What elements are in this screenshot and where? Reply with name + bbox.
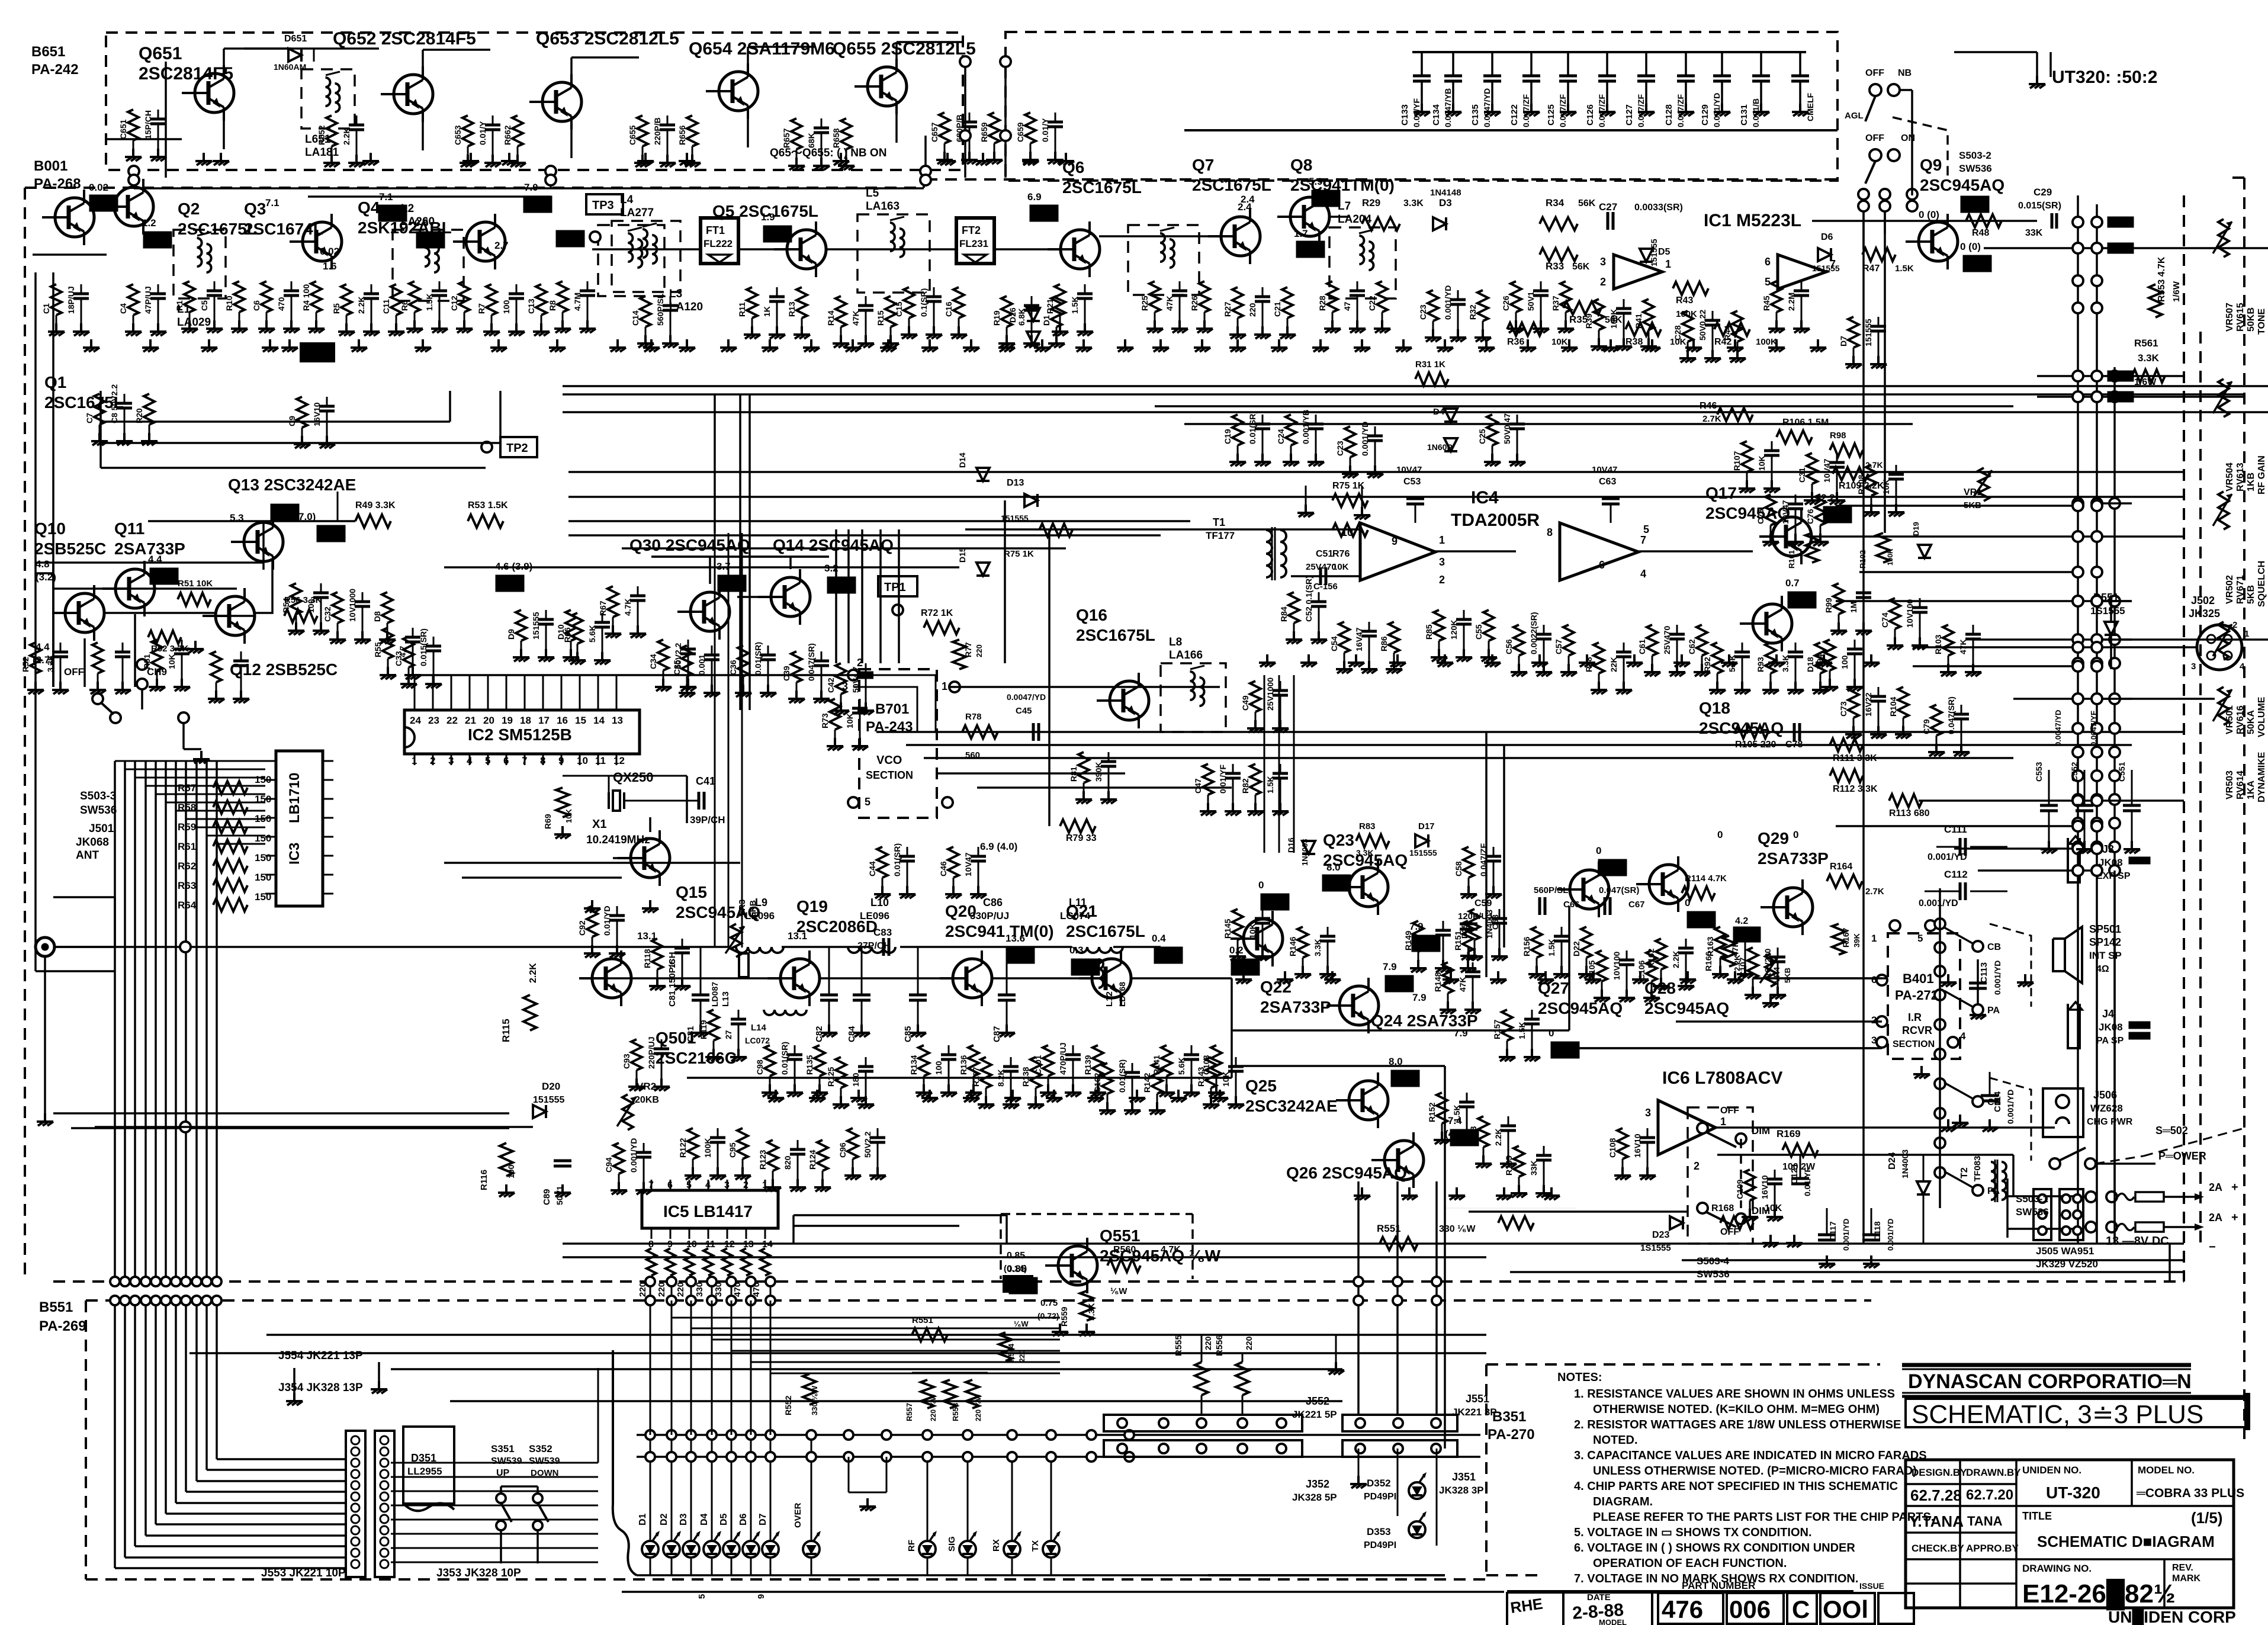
- svg-text:R657: R657: [782, 128, 791, 148]
- svg-text:PD49PI: PD49PI: [1364, 1540, 1396, 1550]
- svg-text:R555: R555: [1174, 1335, 1184, 1356]
- svg-text:D352: D352: [1367, 1478, 1391, 1489]
- svg-text:C74: C74: [1880, 612, 1890, 628]
- svg-text:C92: C92: [577, 920, 587, 936]
- svg-text:5. VOLTAGE IN ▭ SHOWS TX CONDI: 5. VOLTAGE IN ▭ SHOWS TX CONDITION.: [1574, 1526, 1812, 1539]
- svg-text:C25: C25: [1477, 429, 1487, 444]
- svg-text:1KB: 1KB: [2246, 473, 2256, 492]
- svg-text:1: 1: [412, 755, 417, 766]
- svg-text:7.1: 7.1: [379, 191, 393, 203]
- svg-text:13.1: 13.1: [788, 930, 807, 942]
- svg-text:J3: J3: [2102, 843, 2114, 855]
- svg-text:560P/SL: 560P/SL: [1534, 885, 1568, 895]
- svg-text:SCHEMATIC D■IAGRAM: SCHEMATIC D■IAGRAM: [2037, 1533, 2215, 1550]
- svg-text:R14: R14: [826, 310, 836, 326]
- svg-text:16V10: 16V10: [1633, 1133, 1642, 1158]
- svg-text:D13: D13: [1007, 478, 1024, 488]
- svg-text:NOTES:: NOTES:: [1557, 1371, 1602, 1384]
- svg-text:13.6: 13.6: [1005, 933, 1025, 944]
- svg-text:17: 17: [538, 715, 550, 726]
- svg-text:50V1: 50V1: [1526, 291, 1535, 311]
- svg-text:330P/UJ: 330P/UJ: [970, 910, 1009, 921]
- svg-text:2SB525C: 2SB525C: [34, 539, 106, 558]
- svg-text:0.015(SR): 0.015(SR): [2018, 201, 2061, 211]
- svg-text:100: 100: [506, 1164, 516, 1178]
- svg-text:5.6K: 5.6K: [587, 625, 597, 643]
- svg-text:50KB: 50KB: [2246, 307, 2256, 332]
- svg-text:C-156: C-156: [1313, 582, 1338, 592]
- svg-text:220: 220: [1203, 1336, 1213, 1350]
- svg-text:LB1710: LB1710: [287, 773, 303, 823]
- svg-text:0.01/Y: 0.01/Y: [478, 121, 487, 145]
- svg-text:7: 7: [1640, 534, 1646, 546]
- svg-text:INT SP: INT SP: [2089, 950, 2122, 961]
- svg-text:0.001/YD: 0.001/YD: [629, 1138, 638, 1173]
- svg-text:−: −: [2209, 1241, 2216, 1254]
- svg-text:D5: D5: [1658, 247, 1671, 257]
- svg-text:TDA2005R: TDA2005R: [1451, 510, 1540, 530]
- svg-text:Q8: Q8: [1290, 156, 1312, 174]
- svg-text:1N4003: 1N4003: [1900, 1149, 1910, 1178]
- svg-text:R122: R122: [678, 1138, 688, 1158]
- svg-text:15: 15: [667, 959, 677, 968]
- svg-text:Y.TANA: Y.TANA: [1909, 1512, 1964, 1530]
- svg-text:OVER: OVER: [793, 1502, 803, 1528]
- svg-text:150: 150: [255, 872, 271, 883]
- svg-text:2: 2: [430, 755, 435, 766]
- svg-text:IC5 LB1417: IC5 LB1417: [663, 1202, 753, 1221]
- svg-text:VR1: VR1: [1964, 487, 1982, 497]
- svg-text:R116: R116: [479, 1170, 489, 1190]
- svg-text:PART NUMBER: PART NUMBER: [1682, 1580, 1755, 1591]
- svg-text:68K: 68K: [807, 133, 816, 148]
- svg-text:0.4: 0.4: [1152, 933, 1166, 944]
- svg-text:SP142: SP142: [2089, 936, 2121, 948]
- svg-text:0.001: 0.001: [697, 654, 706, 675]
- svg-text:C653: C653: [453, 125, 462, 145]
- svg-text:0 (0): 0 (0): [1960, 241, 1981, 252]
- svg-text:C655: C655: [628, 125, 637, 145]
- svg-text:CHG PWR: CHG PWR: [2087, 1117, 2133, 1127]
- svg-text:R51: R51: [142, 654, 152, 669]
- svg-text:¹⁄₆W: ¹⁄₆W: [1110, 1286, 1127, 1296]
- svg-text:J505 WA951: J505 WA951: [2036, 1245, 2094, 1257]
- svg-text:TX: TX: [1030, 1540, 1040, 1552]
- svg-text:1N4003: 1N4003: [1300, 839, 1309, 866]
- svg-text:R105 220: R105 220: [1735, 740, 1776, 750]
- svg-text:10V47: 10V47: [963, 852, 973, 876]
- svg-text:Q19: Q19: [796, 897, 828, 916]
- svg-text:7.9: 7.9: [1454, 1027, 1468, 1039]
- svg-text:C126: C126: [1585, 104, 1595, 126]
- svg-text:R35: R35: [1569, 314, 1588, 325]
- svg-text:2SC1675L: 2SC1675L: [1062, 178, 1142, 197]
- svg-text:4.8: 4.8: [36, 558, 50, 570]
- svg-text:C11: C11: [381, 299, 391, 314]
- svg-text:Q7: Q7: [1192, 156, 1214, 174]
- svg-text:R27: R27: [1223, 301, 1232, 317]
- svg-text:0.01(SR): 0.01(SR): [892, 843, 902, 876]
- svg-text:R32: R32: [1468, 304, 1477, 320]
- svg-text:JK221 5P: JK221 5P: [1292, 1409, 1337, 1420]
- svg-text:Q4: Q4: [358, 198, 380, 217]
- svg-text:220: 220: [1018, 1350, 1026, 1362]
- svg-text:0.001/YD: 0.001/YD: [1443, 285, 1453, 320]
- svg-text:R142: R142: [1142, 1072, 1152, 1093]
- svg-text:RF GAIN: RF GAIN: [2257, 455, 2267, 494]
- svg-text:R123: R123: [758, 1149, 767, 1170]
- svg-text:R557: R557: [905, 1403, 914, 1421]
- svg-text:C102: C102: [1093, 1072, 1102, 1093]
- svg-text:LA029: LA029: [177, 316, 211, 329]
- svg-text:L12: L12: [1104, 991, 1114, 1007]
- svg-text:C24: C24: [1276, 429, 1286, 444]
- svg-text:0.015(SR): 0.015(SR): [419, 628, 428, 666]
- svg-text:OFF: OFF: [1865, 68, 1884, 78]
- svg-text:R136: R136: [959, 1055, 968, 1075]
- svg-text:47K: 47K: [851, 310, 860, 326]
- svg-text:C5: C5: [200, 300, 209, 311]
- svg-text:C94: C94: [604, 1157, 613, 1173]
- svg-text:R15: R15: [876, 310, 885, 326]
- svg-text:10V100: 10V100: [1612, 952, 1621, 980]
- svg-text:R52: R52: [21, 657, 30, 672]
- svg-text:OOl: OOl: [1823, 1595, 1868, 1623]
- svg-text:R107: R107: [1732, 451, 1742, 471]
- svg-text:R4 100: R4 100: [301, 284, 311, 311]
- svg-text:C127: C127: [1624, 104, 1634, 126]
- svg-text:Q25: Q25: [1245, 1077, 1277, 1095]
- svg-text:RV613: RV613: [2235, 463, 2245, 492]
- svg-text:151555: 151555: [1864, 319, 1873, 346]
- svg-text:5: 5: [485, 755, 490, 766]
- svg-text:21: 21: [465, 715, 476, 726]
- svg-text:0.001/B: 0.001/B: [1751, 98, 1761, 127]
- svg-text:16V22: 16V22: [1864, 692, 1873, 717]
- svg-text:2: 2: [743, 1180, 748, 1190]
- svg-text:SQUELCH: SQUELCH: [2257, 561, 2267, 607]
- svg-text:R114 4.7K: R114 4.7K: [1685, 873, 1727, 884]
- svg-text:2SC945AQ: 2SC945AQ: [1644, 999, 1729, 1017]
- svg-text:220: 220: [676, 1282, 686, 1297]
- svg-text:WZ628: WZ628: [2090, 1103, 2123, 1114]
- svg-text:T1: T1: [1213, 516, 1225, 528]
- svg-text:C135: C135: [1470, 104, 1480, 126]
- svg-text:R109 2.2K: R109 2.2K: [1839, 481, 1884, 491]
- svg-text:0: 0: [1685, 897, 1690, 908]
- svg-text:2.2K: 2.2K: [1733, 955, 1742, 971]
- svg-text:27: 27: [724, 1030, 733, 1039]
- svg-text:SECTION: SECTION: [1893, 1039, 1935, 1049]
- svg-text:0.047/ZF: 0.047/ZF: [1521, 94, 1531, 127]
- svg-text:0.047/ZF: 0.047/ZF: [1479, 843, 1488, 876]
- svg-text:LD087: LD087: [710, 982, 719, 1007]
- svg-text:R554: R554: [1007, 1343, 1016, 1362]
- svg-text:6: 6: [1765, 256, 1771, 268]
- svg-text:Q14 2SC945AQ: Q14 2SC945AQ: [773, 536, 894, 554]
- svg-text:C122: C122: [1509, 104, 1520, 126]
- svg-text:D20: D20: [542, 1081, 560, 1092]
- svg-text:1.9: 1.9: [761, 211, 775, 223]
- svg-text:0.01(SR): 0.01(SR): [1117, 1059, 1127, 1093]
- svg-text:8.0: 8.0: [1326, 862, 1341, 873]
- svg-text:5: 5: [1765, 276, 1771, 288]
- svg-text:100: 100: [502, 300, 511, 314]
- svg-text:3: 3: [448, 755, 454, 766]
- svg-text:7.9: 7.9: [1409, 921, 1424, 932]
- svg-text:LD168: LD168: [1117, 982, 1127, 1007]
- svg-text:390K: 390K: [1094, 762, 1103, 782]
- svg-text:VCO: VCO: [876, 754, 902, 767]
- svg-text:SW536: SW536: [1959, 163, 1992, 174]
- svg-text:R556: R556: [1215, 1335, 1225, 1356]
- svg-text:R73: R73: [820, 713, 830, 728]
- svg-text:C59: C59: [1474, 898, 1492, 908]
- svg-text:220: 220: [975, 644, 984, 657]
- svg-text:R5: R5: [332, 303, 341, 314]
- svg-text:R64: R64: [178, 900, 197, 911]
- svg-text:2: 2: [1439, 574, 1445, 586]
- svg-text:C131: C131: [1739, 104, 1749, 126]
- svg-text:16V10: 16V10: [312, 402, 322, 426]
- svg-text:33K: 33K: [1529, 1160, 1538, 1176]
- svg-text:C117: C117: [1828, 1221, 1837, 1241]
- svg-text:10K: 10K: [845, 713, 854, 728]
- svg-text:151555: 151555: [531, 612, 541, 640]
- svg-text:R167: R167: [1841, 927, 1851, 948]
- svg-text:50KA: 50KA: [2246, 710, 2256, 734]
- svg-text:J501: J501: [89, 823, 114, 835]
- svg-text:0.0047/YF: 0.0047/YF: [2089, 711, 2098, 746]
- svg-text:0.0047/YD: 0.0047/YD: [2054, 710, 2063, 746]
- svg-text:C1: C1: [41, 303, 51, 314]
- svg-text:R119: R119: [699, 1020, 708, 1039]
- svg-text:L11: L11: [1069, 897, 1087, 908]
- svg-text:100K: 100K: [1676, 309, 1697, 319]
- svg-text:0.01/YF: 0.01/YF: [1218, 765, 1228, 794]
- svg-text:RV616: RV616: [2235, 705, 2245, 734]
- svg-text:AGL: AGL: [1845, 111, 1864, 121]
- svg-text:10K: 10K: [1248, 923, 1257, 939]
- svg-text:3.3K: 3.3K: [1313, 939, 1322, 956]
- svg-text:2SA733P: 2SA733P: [1260, 998, 1331, 1016]
- svg-text:2SC2814F5: 2SC2814F5: [139, 64, 233, 84]
- svg-text:LA166: LA166: [1169, 649, 1203, 661]
- svg-text:C659: C659: [1016, 122, 1025, 142]
- svg-text:C86: C86: [983, 897, 1003, 908]
- svg-text:20KB: 20KB: [635, 1095, 659, 1105]
- svg-text:R125: R125: [826, 1067, 836, 1087]
- svg-text:3: 3: [1439, 556, 1445, 568]
- svg-text:10K: 10K: [1765, 1203, 1782, 1213]
- svg-text:C53: C53: [1403, 477, 1421, 487]
- svg-text:VR504: VR504: [2225, 463, 2235, 492]
- svg-text:Q18: Q18: [1699, 699, 1730, 717]
- svg-text:0.75: 0.75: [1040, 1298, 1058, 1308]
- svg-text:9: 9: [1392, 535, 1398, 547]
- svg-text:6.9: 6.9: [1027, 191, 1042, 203]
- svg-text:820: 820: [783, 1155, 792, 1170]
- svg-text:62.7.28: 62.7.28: [1910, 1486, 1962, 1504]
- svg-text:C27: C27: [1599, 201, 1617, 213]
- svg-text:7: 7: [648, 1180, 654, 1190]
- svg-text:RV671: RV671: [2235, 575, 2245, 604]
- svg-text:CB: CB: [1987, 942, 2001, 952]
- svg-text:JK328 3P: JK328 3P: [1439, 1485, 1484, 1496]
- svg-text:R19: R19: [992, 310, 1001, 326]
- svg-text:7.1: 7.1: [265, 197, 280, 208]
- svg-text:3.3K: 3.3K: [2138, 352, 2160, 364]
- svg-text:R6: R6: [400, 300, 409, 311]
- svg-text:R656: R656: [677, 125, 687, 145]
- svg-text:50V2.2: 50V2.2: [863, 1131, 872, 1158]
- svg-text:C129: C129: [1700, 104, 1710, 126]
- svg-text:D14: D14: [958, 452, 967, 468]
- svg-text:D651: D651: [284, 34, 307, 44]
- svg-text:0.01/YD: 0.01/YD: [602, 905, 612, 936]
- svg-text:15: 15: [575, 715, 586, 726]
- svg-text:R25: R25: [1140, 296, 1149, 311]
- svg-text:D25: D25: [1460, 923, 1469, 939]
- svg-text:220 ¹⁄₆W: 220 ¹⁄₆W: [974, 1393, 982, 1421]
- svg-text:2.2K: 2.2K: [356, 296, 366, 314]
- svg-text:C75: C75: [1756, 509, 1765, 524]
- svg-text:IC2 SM5125B: IC2 SM5125B: [468, 725, 572, 744]
- svg-text:150: 150: [255, 852, 271, 863]
- svg-text:2SA733P: 2SA733P: [1758, 849, 1829, 868]
- svg-text:C79: C79: [1922, 719, 1931, 734]
- svg-text:D4: D4: [699, 1513, 709, 1526]
- svg-text:VR503: VR503: [2225, 770, 2235, 799]
- svg-text:56K: 56K: [1572, 262, 1590, 272]
- svg-text:1/6W: 1/6W: [2171, 281, 2182, 302]
- svg-text:D2: D2: [659, 1513, 669, 1526]
- svg-text:Q15: Q15: [676, 883, 707, 901]
- svg-text:220: 220: [1248, 303, 1257, 317]
- svg-text:0 (0): 0 (0): [1919, 209, 1939, 220]
- svg-text:10.2419MHz: 10.2419MHz: [586, 834, 650, 846]
- svg-text:D9: D9: [506, 629, 516, 640]
- svg-text:TF083: TF083: [1973, 1156, 1983, 1181]
- svg-text:J352: J352: [1306, 1478, 1329, 1490]
- svg-text:R146: R146: [1288, 936, 1297, 956]
- svg-text:1: 1: [2244, 629, 2249, 639]
- svg-text:RF: RF: [907, 1540, 917, 1552]
- svg-text:50V0.47: 50V0.47: [1502, 413, 1512, 444]
- svg-text:R99: R99: [1824, 598, 1833, 613]
- svg-text:R102: R102: [1858, 550, 1867, 569]
- svg-text:3.3K: 3.3K: [1403, 198, 1424, 208]
- svg-text:¹⁄₆W: ¹⁄₆W: [1014, 1319, 1029, 1328]
- svg-text:25V470: 25V470: [1306, 562, 1337, 572]
- svg-text:5: 5: [1917, 933, 1923, 944]
- svg-text:JK068: JK068: [76, 836, 109, 849]
- svg-text:3.3K: 3.3K: [1087, 1303, 1096, 1321]
- svg-text:D3: D3: [1439, 197, 1452, 208]
- svg-text:SW536: SW536: [1697, 1268, 1730, 1280]
- svg-text:R10: R10: [224, 296, 234, 311]
- svg-text:MODEL: MODEL: [1599, 1618, 1627, 1625]
- svg-text:+: +: [2231, 1211, 2238, 1224]
- svg-text:0: 0: [1717, 829, 1723, 840]
- svg-text:C125: C125: [1546, 104, 1556, 126]
- svg-text:C16: C16: [944, 301, 953, 317]
- svg-text:C57: C57: [1554, 639, 1563, 654]
- svg-text:100K: 100K: [703, 1138, 712, 1158]
- svg-text:10: 10: [577, 755, 588, 766]
- svg-text:0.047/ZF: 0.047/ZF: [1558, 94, 1567, 127]
- svg-text:RX: RX: [991, 1539, 1001, 1552]
- svg-text:2SC945AQ: 2SC945AQ: [1705, 504, 1790, 522]
- svg-text:Q13 2SC3242AE: Q13 2SC3242AE: [228, 476, 356, 494]
- svg-text:10K: 10K: [1670, 337, 1686, 347]
- svg-text:C61: C61: [1637, 639, 1647, 654]
- svg-text:0.047/ZF: 0.047/ZF: [1676, 94, 1685, 127]
- svg-text:2.2K: 2.2K: [1671, 950, 1681, 968]
- svg-text:560: 560: [965, 750, 980, 760]
- svg-text:R164: R164: [1830, 862, 1852, 872]
- svg-text:4Ω: 4Ω: [2096, 964, 2109, 974]
- svg-text:0.01/YF: 0.01/YF: [1412, 98, 1421, 127]
- svg-text:DRAWN.BY: DRAWN.BY: [1966, 1467, 2021, 1478]
- svg-text:DYNAMIKE: DYNAMIKE: [2257, 752, 2267, 802]
- svg-text:UN█IDEN CORP: UN█IDEN CORP: [2108, 1607, 2236, 1625]
- svg-text:R52 3.3K: R52 3.3K: [151, 644, 189, 654]
- svg-text:Q10: Q10: [34, 519, 66, 538]
- svg-text:0.3: 0.3: [1069, 945, 1084, 956]
- svg-text:C54: C54: [1329, 636, 1339, 651]
- svg-text:MODEL NO.: MODEL NO.: [2138, 1465, 2195, 1476]
- svg-text:0.0033(SR): 0.0033(SR): [1634, 203, 1683, 213]
- svg-text:1: 1: [942, 680, 947, 692]
- svg-text:100K: 100K: [1756, 337, 1777, 347]
- svg-text:10K: 10K: [564, 809, 573, 823]
- svg-text:R84: R84: [1279, 606, 1289, 622]
- svg-text:1N60AM: 1N60AM: [274, 62, 306, 72]
- svg-text:0: 0: [1258, 879, 1264, 891]
- svg-text:C22: C22: [1367, 296, 1377, 311]
- svg-text:2A: 2A: [2209, 1181, 2222, 1193]
- svg-text:R21: R21: [1045, 298, 1055, 314]
- svg-text:PA-270: PA-270: [1488, 1427, 1535, 1443]
- svg-text:C58: C58: [1454, 861, 1463, 876]
- svg-text:TONE: TONE: [2257, 309, 2267, 335]
- svg-text:2SC941 TM(0): 2SC941 TM(0): [945, 922, 1054, 940]
- svg-text:7.4: 7.4: [1448, 1115, 1462, 1126]
- svg-text:0.0047/YD: 0.0047/YD: [1007, 692, 1046, 702]
- svg-text:SW539: SW539: [529, 1456, 560, 1466]
- svg-text:R106 1.5M: R106 1.5M: [1782, 418, 1829, 428]
- svg-text:150: 150: [255, 833, 271, 844]
- svg-text:C87: C87: [992, 1026, 1002, 1042]
- svg-text:R143: R143: [1196, 1067, 1206, 1087]
- svg-text:OFF: OFF: [1865, 133, 1884, 143]
- svg-text:150: 150: [255, 774, 271, 785]
- svg-text:8: 8: [540, 755, 545, 766]
- svg-text:16V10: 16V10: [1760, 1175, 1769, 1199]
- svg-text:JK08: JK08: [2099, 1022, 2123, 1033]
- svg-text:Q2: Q2: [178, 200, 200, 218]
- svg-text:0.0047/YB: 0.0047/YB: [1443, 88, 1453, 127]
- svg-text:UNLESS OTHERWISE NOTED. (P=MIC: UNLESS OTHERWISE NOTED. (P=MICRO-MICRO F…: [1593, 1465, 1917, 1478]
- svg-text:10V1000: 10V1000: [348, 589, 357, 622]
- svg-text:C23: C23: [1418, 304, 1428, 320]
- svg-text:3: 3: [724, 1180, 730, 1190]
- svg-text:0.047(SR): 0.047(SR): [1946, 696, 1956, 734]
- svg-text:PA: PA: [1987, 1186, 2000, 1196]
- svg-text:PD49PI: PD49PI: [1364, 1492, 1396, 1502]
- svg-text:100: 100: [1840, 655, 1849, 669]
